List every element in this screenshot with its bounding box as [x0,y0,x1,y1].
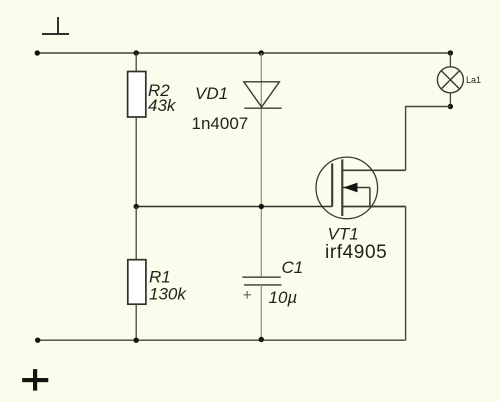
svg-text:R1: R1 [149,267,171,286]
resistor R2 [128,72,146,118]
node lamp top junction [448,50,453,55]
wire R2 top lead [135,53,137,72]
node R2 top junction [134,50,139,55]
wire lamp bottom lead [449,93,451,107]
node C1 top junction [259,204,264,209]
wire C1 bottom lead [260,285,262,340]
wire source to bottom rail [405,207,407,341]
node VD1 top junction [259,50,264,55]
wire bottom rail [38,339,406,341]
wire gate [136,206,332,208]
svg-text:1n4007: 1n4007 [192,114,249,133]
svg-text:43k: 43k [148,96,177,115]
capacitor C1 [242,277,281,285]
ground [42,17,69,34]
svg-text:C1: C1 [282,258,304,277]
wire top rail [37,52,450,54]
svg-text:irf4905: irf4905 [325,242,387,263]
svg-text:VD1: VD1 [195,84,228,103]
node gate junction [134,204,139,209]
wire lamp to drain [406,107,451,171]
node R1 bottom junction [134,338,139,343]
lamp La1 [437,67,463,93]
resistor R1 [128,260,146,305]
wire R1 bottom lead [135,304,137,340]
transistor VT1 [316,157,406,219]
svg-text:VT1: VT1 [328,225,359,244]
node C1 bottom junction [259,337,264,342]
plus terminal symbol [22,369,48,391]
wire VD1 anode lead [260,53,262,277]
node top-left terminal [35,50,40,55]
svg-text:10µ: 10µ [269,288,298,307]
diode VD1 [244,82,282,108]
wire lamp top lead [449,53,451,67]
wire R1 top lead [135,207,137,260]
label C1 plus polarity [244,291,252,299]
node lamp bottom junction [448,104,453,109]
svg-text:La1: La1 [466,75,481,85]
svg-text:130k: 130k [149,285,187,304]
wire R2 bottom lead [135,117,137,207]
node bottom-left terminal [35,338,40,343]
